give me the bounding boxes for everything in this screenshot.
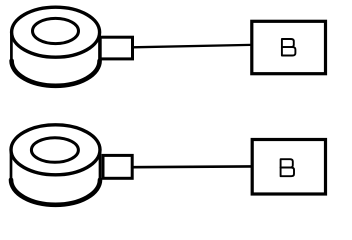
toroid sensor 1 outer top face	[12, 7, 100, 57]
toroid sensor 2 right side wall	[99, 151, 102, 181]
toroid sensor 2 outer top face	[11, 125, 100, 175]
toroid sensor 1 left side wall	[10, 33, 13, 61]
wire 2	[132, 165, 251, 168]
box B2	[252, 140, 325, 195]
box B1	[252, 21, 326, 73]
toroid sensor 2 hole	[31, 138, 78, 163]
toroid sensor 1 bottom arc	[12, 61, 100, 86]
toroid sensor 1 right side wall	[98, 33, 101, 62]
toroid sensor 2 left side wall	[10, 151, 13, 180]
label B2	[281, 159, 294, 176]
wire 1	[133, 45, 251, 47]
connector plug 2	[103, 155, 132, 178]
toroid sensor 2 bottom arc	[11, 180, 100, 205]
label B1	[282, 39, 296, 56]
toroid sensor 1 hole	[33, 18, 79, 43]
connector plug 1	[100, 37, 132, 59]
